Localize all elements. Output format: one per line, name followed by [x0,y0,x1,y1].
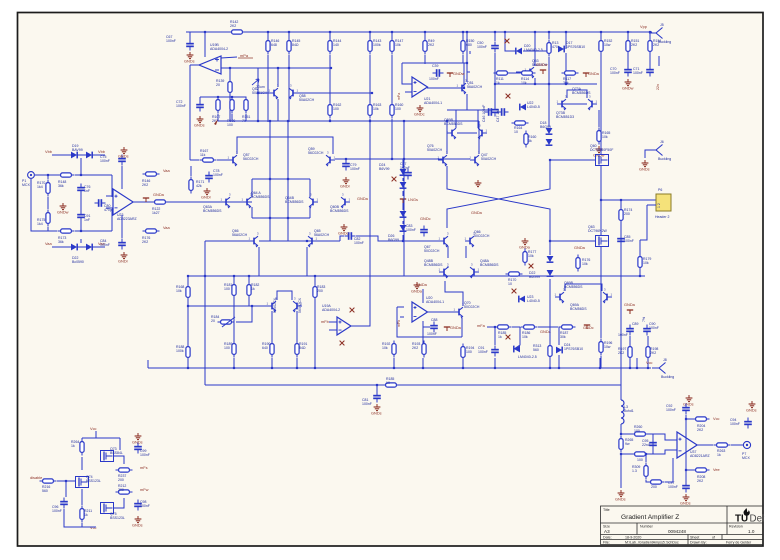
svg-text:GNDs: GNDs [371,411,382,416]
wire long wire [205,384,621,386]
svg-text:640: 640 [262,346,268,350]
wire [550,240,595,242]
wire [598,110,600,127]
svg-text:Vbb: Vbb [98,149,105,154]
capacitor C96 [60,498,68,509]
resistor R189 label [224,342,232,350]
inductor L3 [621,400,624,424]
diode D19b [86,152,92,159]
svg-text:mFa: mFa [477,323,486,328]
resistor R260 label [634,425,642,433]
power [584,325,590,329]
junction [269,217,271,219]
resistor R192 [392,341,396,358]
resistor R168 label [176,285,184,293]
wire [557,103,587,105]
svg-text:1k4: 1k4 [37,185,43,189]
svg-text:9w: 9w [625,442,630,446]
transistor Q69A label [570,303,587,311]
resistor R181 label [224,283,232,291]
junction [393,367,395,369]
resistor R196 label [604,341,612,349]
wire [463,63,465,88]
transistor Q76 label [427,144,443,152]
svg-text:100: 100 [227,123,233,127]
svg-text:50A02CH: 50A02CH [427,148,443,152]
svg-text:22n: 22n [656,84,660,90]
svg-text:100nF: 100nF [633,71,643,75]
wire [221,57,237,58]
resistor R108 [230,97,234,114]
power [143,198,149,202]
wire [636,358,638,368]
wire [658,56,660,66]
wire supply rail [685,415,687,482]
capacitor C78 [205,172,213,183]
svg-text:2K2: 2K2 [142,240,148,244]
wire [509,72,521,74]
wire [75,230,112,232]
svg-text:Vbb: Vbb [45,149,52,154]
svg-text:GNDs: GNDs [132,523,143,528]
wire [245,114,247,121]
svg-text:100: 100 [395,107,401,111]
resistor R146b [143,172,160,176]
resistor R216 [40,479,57,483]
ground GNDa [414,282,421,289]
resistor R151 label [631,39,639,47]
mosfet Q60 label [590,144,613,152]
TU Delft logo [735,508,770,525]
resistor R171 label [196,180,204,188]
wire [106,207,113,209]
header label [655,215,669,219]
capacitor C80b label [104,204,114,212]
diode D18b [546,139,553,145]
junction [65,480,67,482]
wire main signal [150,201,252,203]
capacitor C95 [649,439,657,450]
wire rail [369,55,371,103]
junction [217,96,219,98]
wire [80,158,82,175]
junction [422,367,424,369]
op-amp U21 [412,77,428,97]
wire rail [600,54,602,155]
junction [267,31,269,33]
svg-text:GNDa: GNDa [357,196,369,201]
wire [558,327,560,345]
svg-text:GNDr: GNDr [201,195,212,200]
junction [462,367,464,369]
svg-text:100: 100 [224,287,230,291]
transistor Q58 [289,84,299,100]
svg-text:100nF: 100nF [140,453,150,457]
wire [298,92,372,94]
svg-text:100nF: 100nF [140,504,150,508]
svg-text:BAV99: BAV99 [72,148,83,152]
wire [645,150,649,158]
svg-text:GNDs: GNDs [683,402,694,407]
connector P7 MCX [743,441,750,448]
resistor R264 [80,439,84,456]
svg-text:of: of [712,536,715,540]
wire [402,203,404,210]
op-amp U19A label [322,304,340,312]
wire [329,321,337,323]
transistor Q47 label [481,153,497,161]
inductor L3 label [624,405,634,413]
wire [329,119,331,121]
resistor R186 label [522,331,530,339]
resistor R190 [270,341,274,358]
junction [446,120,448,122]
power GNDw [447,73,453,77]
junction [187,367,189,369]
page margin mask [764,0,780,560]
resistor R146 [266,38,270,55]
wire [229,95,231,121]
wire [495,72,496,74]
diode D19a [71,152,77,159]
capacitor C75 [118,155,126,166]
resistor R197 label [618,347,626,355]
svg-text:100k: 100k [373,43,381,47]
resistor R164 label [514,126,522,134]
wire [397,306,404,308]
ground GNDw [60,203,67,210]
junction [647,367,649,369]
resistor R182 [247,282,251,299]
wire rail [329,55,331,103]
capacitor C72 label [176,100,186,108]
wire [465,246,467,258]
capacitor C70 [624,66,632,77]
wire [64,509,82,527]
wire [534,78,536,84]
junction [649,31,651,33]
resistor R146 label [271,39,279,47]
junction [47,174,49,176]
resistor R237 label [118,474,126,482]
resistor R152 label [604,39,612,47]
transistor Q59C [478,124,488,140]
svg-text:56C02CH: 56C02CH [308,151,324,155]
diode D22b [86,244,92,251]
resistor R184 [218,320,235,324]
wire [599,358,601,368]
svg-text:200: 200 [651,485,657,489]
svg-text:50C02CH: 50C02CH [464,305,480,309]
connector P1 label [22,179,30,187]
wire [65,481,67,497]
svg-text:22nA: 22nA [642,443,651,447]
svg-text:Vaa: Vaa [163,225,170,230]
wire [461,318,463,337]
svg-text:A3: A3 [604,529,610,534]
wire [549,357,551,368]
svg-text:3k: 3k [528,139,532,143]
wire [236,306,252,322]
wire [314,299,316,368]
wire [523,50,549,52]
wire [190,64,199,66]
junction [369,31,371,33]
resistor R13 label [552,41,558,49]
capacitor C70 label [610,67,620,75]
wire [309,207,311,218]
op-amp U23 [113,189,133,215]
wire [248,297,250,306]
wire [187,276,189,286]
junction [329,31,331,33]
transistor Q67 label [424,245,440,253]
junction [187,305,189,307]
diode D24 label [564,343,583,351]
svg-text:BSS84L: BSS84L [110,451,123,455]
wire [204,32,206,57]
wire lower top bus [218,120,479,122]
wire rail [548,57,550,84]
wire [95,431,97,438]
svg-text:GNDs: GNDs [680,501,691,506]
junction [403,120,405,122]
junction [391,158,393,160]
wire [652,434,654,454]
wire [629,359,631,368]
wire [467,71,470,73]
svg-text:100nF: 100nF [100,243,110,247]
resistor R192 label [382,342,390,350]
svg-text:30k: 30k [560,335,566,339]
transistor Q59B label [444,118,463,126]
wire [405,91,412,93]
junction [402,240,404,242]
junction [494,83,496,85]
svg-text:GNDs: GNDs [132,440,143,445]
svg-text:C88: C88 [431,318,437,322]
diode D20 [516,48,522,55]
wire [288,32,290,39]
power [627,310,633,314]
wire [147,360,149,368]
svg-text:560: 560 [42,489,48,493]
wire [47,197,49,209]
capacitor C79 label [350,163,360,171]
no-connect [506,335,511,340]
junction [296,367,298,369]
power GNDa [583,73,589,77]
transistor Q66 label [474,230,490,238]
resistor R212 [116,490,133,494]
svg-text:2K2: 2K2 [412,346,418,350]
transistor Q73B [588,95,598,111]
wire [649,54,651,67]
resistor R209 label [632,465,640,473]
svg-text:GNDw: GNDw [57,210,69,215]
wire rail x601 mid [600,166,602,235]
connector J5 [649,28,663,39]
resistor R146b label [142,179,150,187]
ground GNDs [749,401,756,408]
svg-text:100k: 100k [176,349,184,353]
wire [402,191,404,196]
svg-text:2K2: 2K2 [631,43,637,47]
wire cross B [447,160,550,228]
wire rail x258 [257,68,259,121]
wire [277,291,292,300]
wire [427,87,457,89]
junction [187,275,189,277]
svg-text:560: 560 [533,348,539,352]
junction [233,275,235,277]
resistor R194 label [466,346,474,354]
transistor Q70 label [464,301,480,309]
wire [258,67,331,69]
resistor R198 [646,344,650,361]
ground GNDw [475,180,482,187]
junction [627,31,629,33]
junction [600,31,602,33]
svg-text:ADA4004-2: ADA4004-2 [210,47,228,51]
svg-text:GNDc: GNDc [583,325,594,330]
svg-text:ADA4004-1: ADA4004-1 [424,101,442,105]
svg-text:100: 100 [634,429,640,433]
junction [629,367,631,369]
wire box bottom [252,217,310,219]
svg-text:GNDw: GNDw [622,86,634,91]
svg-text:2K2: 2K2 [428,43,434,47]
wire [258,92,269,94]
capacitor C90 label [649,322,659,330]
diode label [388,234,399,242]
resistor R143 label [373,39,381,47]
ground GNDs [642,160,649,167]
junction [620,453,622,455]
wire [477,110,479,128]
mosfet Q63 [596,236,609,247]
connector P1 MCX [28,172,35,179]
wire [558,355,560,368]
wire [296,311,298,343]
transistor Q69B [555,288,566,304]
op-amp U23 label [117,213,138,221]
ground GNDa [522,238,529,245]
diode D23z [514,346,520,353]
wire [35,174,60,176]
svg-text:DCT96N2W: DCT96N2W [588,229,608,233]
resistor R183 label [317,285,325,293]
wire [75,174,112,176]
wire bottom bus [148,367,651,369]
transistor Q53 [525,63,536,79]
capacitor C50 label [477,41,487,49]
resistor R143 [368,38,372,55]
wire [271,358,273,368]
svg-text:2K2: 2K2 [697,479,703,483]
transistor Q59 label [308,147,324,155]
transistor Q70 [454,303,465,319]
wire [229,68,231,79]
trimmer arrow [222,317,235,327]
wire [646,480,648,482]
wire [81,438,83,440]
resistor R170 label [508,278,516,286]
resistor R151 label [242,115,250,123]
junction [371,92,373,94]
svg-text:mPb: mPb [397,320,401,327]
resistor R194 [461,344,465,361]
connector J6 label [658,157,671,161]
svg-text:GNDa: GNDa [450,325,462,330]
wire [549,230,551,255]
capacitor C95 label [642,439,651,447]
svg-text:mFs: mFs [140,465,148,470]
junction [558,367,560,369]
wire [133,201,150,203]
wire [188,305,267,307]
transistor Q47 [470,151,481,167]
wire [422,289,424,303]
diode D18 label [540,121,551,129]
transistor Q65 label [314,229,330,237]
power mark [214,119,218,125]
resistor R160 [390,102,394,119]
ground GNDw [625,79,632,86]
wire rail x601 upper [600,54,602,155]
svg-text:BCM856DS: BCM856DS [330,209,349,213]
svg-text:200: 200 [317,289,323,293]
junction [466,31,468,33]
svg-text:Ferry de Gelder: Ferry de Gelder [726,541,752,545]
svg-text:BCM851D3: BCM851D3 [556,115,574,119]
wire [351,276,370,326]
svg-text:LM4040-2.5: LM4040-2.5 [524,48,543,52]
svg-text:GNDa: GNDa [588,71,600,76]
capacitor C89 [626,325,634,336]
wire [639,240,641,276]
wire [309,179,311,197]
wire [288,99,290,121]
ground GNDc [341,224,348,231]
op-amp U19A [337,317,351,335]
svg-text:7%: 7% [642,317,646,322]
wire [271,311,273,343]
resistor R148 label [58,180,66,188]
svg-text:10k: 10k [373,107,379,111]
wire U19B output rail [189,65,191,160]
svg-text:Buckling: Buckling [658,40,671,44]
transistor Q53 label [532,59,548,67]
wire [565,32,567,49]
svg-text:B6V99: B6V99 [379,167,390,171]
svg-text:LM4040-2.5: LM4040-2.5 [518,355,537,359]
wire [731,444,743,446]
capacitor C39 label2 [429,77,439,81]
svg-text:GNDa: GNDa [624,302,636,307]
transistor Q72 [293,297,303,313]
wire [621,433,633,435]
resistor R152 [599,38,603,55]
resistor R190 label [262,342,270,350]
resistor R145 [287,38,291,55]
power [444,327,450,331]
mosfet Q74 [76,477,89,488]
svg-text:GNDw: GNDw [536,62,548,67]
resistor R114 label [521,77,529,85]
mosfet Q75 label [110,512,125,520]
diode D19 label [72,144,83,152]
